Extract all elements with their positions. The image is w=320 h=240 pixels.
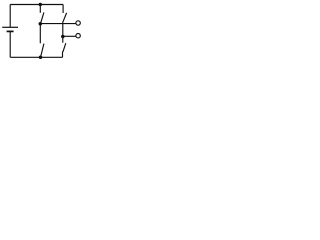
node B junction dot — [61, 35, 65, 39]
switch S1 lever (open) — [41, 12, 44, 23]
wire node A to output terminal — [40, 23, 75, 25]
battery BT1 negative plate (short) — [7, 30, 14, 32]
wire top rail corner down to switch S2 — [62, 5, 64, 14]
node bottom junction dot at switch S3 — [39, 56, 43, 60]
node A junction dot — [39, 22, 43, 26]
node top junction dot at switch S1 — [39, 3, 42, 6]
switch S3 lever (open) — [41, 44, 44, 57]
wire switch S2 bottom to node B — [62, 21, 64, 36]
battery BT1 positive plate (long) — [2, 26, 18, 28]
wire bottom rail — [10, 56, 62, 58]
switch S4 lever (open) — [63, 43, 66, 52]
switch S1 fixed contact stub — [39, 5, 41, 13]
terminal A (open circle) — [76, 21, 80, 25]
switch S4 fixed contact stub from node B — [62, 37, 64, 43]
wire battery negative to bottom rail — [9, 31, 11, 57]
terminal B (open circle) — [76, 34, 80, 38]
wire top rail — [10, 4, 63, 6]
wire node B to output terminal — [63, 35, 76, 37]
switch S2 lever (open) — [63, 13, 67, 22]
wire switch S4 bottom to bottom rail corner — [62, 52, 64, 58]
wire node A down to switch S3 fixed contact — [39, 24, 41, 44]
wire battery positive to top rail — [9, 5, 11, 28]
